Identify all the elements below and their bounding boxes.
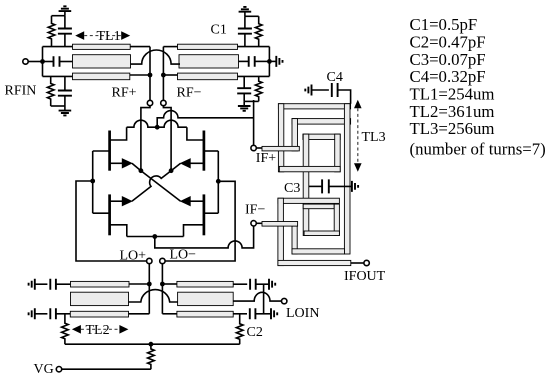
node quad left rail junction bbox=[90, 179, 95, 184]
transmission line TL2 right primary strip bbox=[178, 292, 234, 305]
wire RF- vertical bbox=[162, 47, 164, 101]
wire TL1 left lower to RF+ node bbox=[130, 74, 150, 76]
transistor Q1 drain bbox=[110, 127, 127, 140]
ground LO bottom-right side ground bbox=[271, 308, 277, 319]
inductor TL3 right long strip bbox=[344, 104, 350, 254]
transistor Q3 drain bbox=[110, 225, 127, 237]
wire RF- jog to quad bbox=[163, 106, 171, 171]
wire center tap to C3 bbox=[309, 185, 322, 187]
svg-text:IF+: IF+ bbox=[256, 151, 276, 166]
wire bottom-right RC bottom tie bbox=[244, 100, 259, 102]
capacitor LO top-right coupling bbox=[250, 279, 256, 290]
transistor Q1 gate arrow bbox=[110, 162, 123, 164]
wire RFIN to node bbox=[28, 61, 42, 63]
inductor TL3 bottom spiral outer top strip bbox=[278, 198, 340, 203]
wire TL2 left upper to LO+ node bbox=[129, 283, 149, 285]
ground LO top-left side ground bbox=[29, 279, 35, 290]
node RF- lower junction bbox=[161, 73, 166, 78]
transmission line TL2 right upper strip bbox=[177, 281, 233, 287]
wire VG rail bbox=[65, 343, 240, 345]
transistor Q4 channel bbox=[203, 194, 206, 235]
transmission line TL1 left upper strip bbox=[73, 44, 131, 49]
port RFIN terminal bbox=[23, 59, 28, 64]
wire quad bottom rail bbox=[127, 236, 184, 238]
transistor Q4 drain bbox=[184, 225, 204, 237]
svg-text:TL3=256um: TL3=256um bbox=[410, 119, 495, 138]
svg-text:RFIN: RFIN bbox=[5, 84, 37, 99]
node LO+ upper junction bbox=[147, 282, 152, 287]
wire IF+ takeoff with hop bbox=[157, 100, 253, 145]
node RF+ lower junction bbox=[148, 73, 153, 78]
ground C4 side ground bbox=[305, 85, 311, 96]
transmission line TL1 right primary strip bbox=[179, 55, 239, 68]
inductor TL3 center tap strip bbox=[303, 134, 309, 235]
wire left balun box top edge bbox=[43, 46, 73, 48]
svg-text:TL1: TL1 bbox=[97, 29, 121, 44]
capacitor bottom-left bias C bbox=[58, 91, 72, 96]
wire TL1 left upper to RF+ bbox=[130, 46, 150, 48]
ground top-right bbox=[244, 12, 246, 17]
inductor TL3 top spiral bottom strip bbox=[279, 166, 340, 171]
wire right balun box bottom edge bbox=[238, 75, 270, 77]
svg-text:C3=0.07pF: C3=0.07pF bbox=[410, 50, 486, 69]
node LO+ terminal bbox=[147, 258, 152, 263]
transmission line TL1 left primary strip bbox=[73, 55, 131, 68]
node quad bottom rail junction bbox=[152, 234, 157, 239]
capacitor top-left bias C bbox=[58, 29, 72, 34]
svg-text:TL3: TL3 bbox=[362, 130, 386, 145]
node IF+ terminal bbox=[251, 145, 256, 150]
svg-text:C1=0.5pF: C1=0.5pF bbox=[410, 15, 478, 34]
svg-text:TL1=254um: TL1=254um bbox=[410, 85, 495, 104]
svg-text:LOIN: LOIN bbox=[286, 306, 319, 321]
svg-text:RF−: RF− bbox=[177, 86, 202, 101]
svg-text:LO−: LO− bbox=[170, 248, 197, 263]
wire bottom-left RC cap branch bbox=[64, 76, 66, 106]
inductor TL3 top spiral ring2 left strip bbox=[292, 119, 298, 151]
wire gate diagonal to Q2 bbox=[171, 163, 181, 170]
inductor TL3 bottom spiral ring2 left strip bbox=[292, 226, 297, 254]
wire LO- vertical bbox=[161, 264, 163, 314]
capacitor C4 bbox=[332, 83, 338, 97]
inductor TL3 bottom spiral outer left strip bbox=[278, 198, 284, 265]
node gate cross left bbox=[139, 168, 144, 173]
svg-text:C2=0.47pF: C2=0.47pF bbox=[410, 32, 486, 51]
wire TL2 primary to LOIN with hop bbox=[233, 292, 281, 301]
wire right node to ground bbox=[269, 60, 276, 62]
inductor TL3 top spiral ring3 right strip bbox=[335, 134, 341, 172]
transistor Q3 gate arrow bbox=[110, 200, 123, 202]
inductor TL3 bottom spiral inner bottom strip bbox=[304, 231, 339, 236]
wire LO+ feed from left rail bbox=[76, 181, 147, 261]
svg-text:IF−: IF− bbox=[245, 202, 265, 217]
transistor Q3 source bbox=[93, 212, 110, 214]
transmission line TL1 left lower strip bbox=[73, 73, 130, 80]
wire C4 ground to cap bbox=[312, 89, 329, 91]
node IFOUT terminal bbox=[364, 260, 369, 265]
node right balun junction bbox=[267, 59, 272, 64]
wire top-left RC cap branch bbox=[64, 16, 66, 47]
inductor TL3 bottom spiral ring2 bottom strip bbox=[292, 249, 345, 254]
wire TL2 right lower to LO- vertical bbox=[162, 313, 177, 315]
ground right balun side ground bbox=[276, 56, 282, 67]
resistor top-right bias R bbox=[255, 16, 262, 46]
transmission line TL1 right upper strip bbox=[178, 44, 238, 49]
wire quad top rail with hops bbox=[127, 120, 187, 127]
wire top-left RC top tie bbox=[52, 15, 65, 17]
wire TL2 primary crossover arc bbox=[129, 290, 178, 302]
wire VG to resistor bbox=[62, 368, 151, 370]
capacitor LO top-left coupling bbox=[50, 279, 56, 290]
wire bottom-left RC bottom tie bbox=[51, 105, 65, 107]
capacitor top-right bias C bbox=[238, 29, 252, 34]
svg-text:VG: VG bbox=[34, 362, 54, 377]
node RF- terminal bbox=[161, 100, 166, 105]
wire TL2 left lower to LO+ vertical bbox=[129, 313, 150, 315]
resistor bottom-right bias R bbox=[255, 76, 262, 101]
capacitor bottom-right bias C bbox=[237, 88, 251, 93]
transistor Q1 channel bbox=[108, 131, 111, 171]
inductor TL3 bottom spiral outer bottom strip bbox=[278, 260, 351, 265]
transmission line TL2 left lower strip bbox=[70, 311, 128, 317]
resistor top-left bias R bbox=[48, 16, 55, 47]
svg-text:C4: C4 bbox=[327, 70, 343, 85]
inductor TL3 bottom spiral inner right strip bbox=[334, 204, 339, 235]
wire TL2 right upper row to cap bbox=[233, 283, 247, 285]
wire TL1 right primary to series cap bbox=[239, 60, 249, 62]
wire top-right RC top tie bbox=[245, 15, 259, 17]
node RF+ terminal bbox=[147, 100, 152, 105]
capacitor LO bottom-left coupling bbox=[50, 308, 56, 319]
transmission line TL2 left primary strip bbox=[71, 292, 129, 305]
transmission line TL2 right lower strip bbox=[177, 311, 233, 317]
ground LO bottom-left side ground bbox=[29, 308, 35, 319]
wire right balun box top edge bbox=[238, 46, 270, 48]
inductor TL3 top spiral outer left strip bbox=[278, 104, 283, 172]
svg-text:LO+: LO+ bbox=[120, 248, 147, 263]
wire top-right RC cap branch bbox=[244, 16, 246, 46]
wire right balun box right edge bbox=[268, 47, 270, 77]
transistor Q2 drain bbox=[187, 127, 204, 140]
ground bottom-left bbox=[64, 106, 66, 111]
wire LO bottom-right cap to ground bbox=[255, 313, 271, 315]
node LOIN terminal bbox=[282, 298, 287, 303]
capacitor LO bottom-right coupling C2 bbox=[250, 308, 256, 319]
capacitor series output (right balun) bbox=[249, 56, 255, 67]
wire series cap to right node bbox=[255, 60, 270, 62]
resistor left bias to VG rail bbox=[62, 314, 69, 344]
wire spiral to IFOUT bbox=[351, 262, 364, 264]
svg-text:(number of turns=7): (number of turns=7) bbox=[410, 140, 546, 159]
transistor Q4 source bbox=[204, 212, 218, 214]
inductor TL3 IF+ feed strip bbox=[262, 146, 299, 151]
wire TL2 right upper to LO- node bbox=[162, 283, 177, 285]
resistor right bias to VG rail bbox=[236, 314, 243, 344]
ground LO top-right side ground bbox=[269, 279, 275, 290]
node RF input junction bbox=[40, 59, 45, 64]
node gate cross right bbox=[169, 168, 174, 173]
ground C3 side ground bbox=[352, 181, 358, 192]
svg-text:C3: C3 bbox=[284, 181, 300, 196]
node quad top rail junction bbox=[155, 125, 160, 130]
wire bottom-right RC cap branch bbox=[243, 76, 245, 101]
wire left balun box bottom edge bbox=[43, 75, 73, 77]
node LO- upper junction bbox=[160, 282, 165, 287]
capacitor C3 bbox=[322, 179, 329, 193]
wire LO top-left ground to cap bbox=[35, 283, 48, 285]
wire C3 to ground bbox=[329, 185, 352, 187]
svg-text:TL2: TL2 bbox=[86, 323, 110, 338]
wire IF- terminal to spiral bbox=[256, 222, 262, 224]
wire TL2 right lower row to cap bbox=[233, 313, 247, 315]
inductor TL3 top spiral ring3 top strip bbox=[303, 134, 340, 139]
node IF- terminal bbox=[251, 221, 256, 226]
transistor Q3 channel bbox=[108, 194, 111, 235]
wire LO right vertical tie bbox=[263, 284, 265, 314]
resistor VG feed bbox=[148, 344, 155, 369]
inductor TL3 IF- feed strip bbox=[262, 222, 298, 227]
wire left balun box left edge bbox=[42, 47, 44, 77]
wire gate long diagonal to Q4 bbox=[141, 171, 181, 202]
svg-text:C1: C1 bbox=[211, 23, 227, 38]
wire LO bottom-left ground to cap bbox=[35, 313, 48, 315]
inductor TL3 bottom spiral inner top strip bbox=[303, 204, 334, 209]
wire TL1 right upper to RF- bbox=[163, 46, 177, 48]
ground top-left bbox=[64, 11, 66, 16]
resistor bottom-left bias R bbox=[47, 76, 54, 106]
wire LO- feed from right rail bbox=[165, 181, 235, 261]
svg-text:C2: C2 bbox=[247, 325, 263, 340]
label TL2 with dimension arrows bbox=[72, 325, 81, 334]
wire LO top-right cap to junction bbox=[256, 283, 269, 285]
wire IF+ terminal to spiral bbox=[256, 147, 262, 149]
node VG rail junction bbox=[149, 342, 154, 347]
wire C4 to spiral top bbox=[338, 90, 351, 104]
wire LO top-left cap to TL2 bbox=[56, 283, 71, 285]
transistor Q1 source bbox=[93, 150, 110, 152]
transistor Q2 source bbox=[204, 150, 218, 152]
transistor Q2 channel bbox=[203, 131, 206, 171]
wire node to series cap bbox=[43, 61, 54, 63]
wire quad left rail bbox=[92, 151, 94, 213]
inductor TL3 top spiral ring2 top strip bbox=[292, 119, 351, 125]
capacitor series input (left balun) bbox=[54, 56, 60, 67]
transistor Q4 gate arrow bbox=[190, 200, 204, 202]
wire LO bottom-left cap to TL2 bbox=[56, 313, 70, 315]
svg-text:RF+: RF+ bbox=[112, 86, 137, 101]
wire quad right rail bbox=[217, 151, 219, 213]
wire TL1 primary crossover arc bbox=[131, 50, 181, 64]
wire RF+ jog to quad bbox=[141, 106, 150, 171]
wire gate long diagonal to Q3 with hop bbox=[132, 171, 171, 202]
label TL1 with dimension arrows bbox=[75, 31, 84, 40]
wire LO+ vertical bbox=[148, 264, 150, 314]
wire gate diagonal to Q1 bbox=[132, 163, 141, 170]
svg-text:C4=0.32pF: C4=0.32pF bbox=[410, 67, 486, 86]
node VG terminal bbox=[56, 367, 61, 372]
transmission line TL1 right lower strip bbox=[178, 73, 238, 80]
svg-text:TL2=361um: TL2=361um bbox=[410, 102, 495, 121]
transistor Q2 gate arrow bbox=[190, 162, 204, 164]
label TL3 dimension arrows bbox=[354, 100, 362, 109]
wire IF- takeoff with hop bbox=[155, 226, 254, 248]
node quad right rail junction bbox=[216, 179, 221, 184]
ground bottom-right bbox=[243, 101, 245, 106]
wire series cap to TL1 primary bbox=[60, 61, 74, 63]
wire TL1 right lower to RF- node bbox=[163, 74, 177, 76]
node LO- terminal bbox=[160, 258, 165, 263]
transmission line TL2 left upper strip bbox=[71, 281, 130, 287]
svg-text:IFOUT: IFOUT bbox=[344, 269, 386, 284]
wire RF+ vertical bbox=[149, 47, 151, 101]
inductor TL3 top spiral outer top strip bbox=[278, 104, 350, 109]
